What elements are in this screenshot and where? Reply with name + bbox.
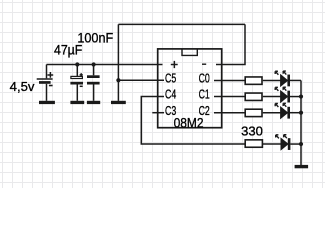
capacitor C2 100nF	[87, 65, 100, 101]
ground (battery)	[39, 101, 55, 104]
wire LED2 to rail	[290, 96, 301, 98]
battery B1 4,5v	[37, 65, 54, 101]
svg-text:4,5v: 4,5v	[10, 79, 35, 94]
wire LED3 to rail	[290, 112, 301, 114]
capacitor C1 47uF	[70, 65, 83, 101]
wire left drop to ground	[117, 24, 119, 101]
node junction rail-LED2	[299, 94, 303, 98]
node junction rail-47uF	[75, 62, 79, 66]
svg-text:C0: C0	[199, 71, 210, 86]
svg-text:100nF: 100nF	[77, 30, 113, 45]
ground (C5 / minus rail)	[111, 101, 126, 104]
node junction C5-ground	[116, 78, 120, 82]
LED D4	[276, 135, 291, 150]
svg-text:C5: C5	[165, 71, 176, 86]
ground (47uF)	[70, 101, 84, 104]
wire R1 to LED1	[263, 79, 281, 81]
svg-text:C4: C4	[165, 87, 176, 102]
node junction rail-LED4	[299, 142, 303, 146]
wire C2 to R3	[214, 112, 245, 114]
wire R2 to LED2	[263, 96, 281, 98]
pin -	[202, 63, 206, 65]
resistor R1	[245, 77, 262, 84]
svg-text:08M2: 08M2	[174, 114, 204, 130]
wire R3 to LED3	[263, 112, 281, 114]
wire LED4 to rail	[290, 143, 301, 145]
wire right cathode rail	[300, 80, 302, 165]
resistor R2	[245, 93, 262, 100]
wire R4 to LED4	[263, 143, 281, 145]
wire C3 stub	[152, 112, 164, 114]
wire C5 to ground vertical	[118, 79, 164, 81]
LED D2	[275, 87, 290, 102]
op-amp U1 08M2 body	[158, 49, 222, 128]
wire right drop to minus pin	[216, 24, 245, 64]
wire C1 to R2	[214, 96, 245, 98]
LED D1	[275, 71, 290, 86]
svg-text:C1: C1	[199, 87, 210, 102]
wire C0 to R1	[214, 79, 245, 81]
LED D3	[275, 103, 290, 118]
wire top ground loop	[118, 23, 245, 25]
notch	[182, 49, 197, 56]
wire +V rail	[47, 64, 163, 66]
node junction rail-100nF	[92, 62, 96, 66]
wire LED1 to rail	[290, 79, 301, 81]
ground (100nF)	[87, 101, 100, 104]
ground (right rail)	[295, 165, 309, 168]
resistor R4 330	[245, 140, 262, 147]
svg-text:330: 330	[241, 124, 263, 139]
resistor R3	[245, 109, 262, 116]
wire C4 route to bottom LED	[141, 97, 245, 145]
pin +	[171, 61, 178, 68]
node junction rail-LED3	[299, 111, 303, 115]
